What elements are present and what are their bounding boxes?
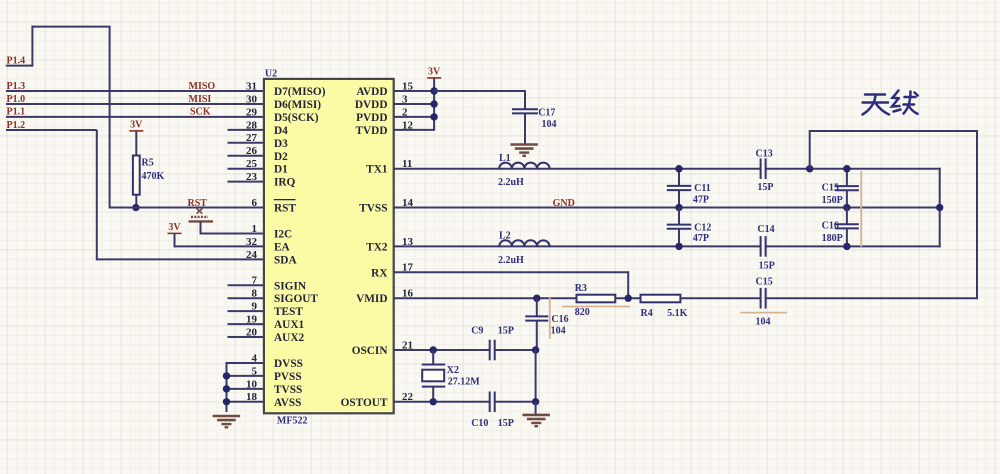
junction VDD [430,87,437,94]
label antenna (tian xian) [863,91,918,115]
junction TX1/C11 [675,165,682,172]
svg-text:MF522: MF522 [277,416,308,427]
svg-text:3V: 3V [130,120,143,131]
wire VMID [394,297,578,299]
svg-text:20: 20 [246,326,258,338]
junction X2 top [430,346,437,353]
wire MISI net [6,103,264,105]
svg-text:C16: C16 [822,221,839,232]
wire antenna right side [976,130,978,299]
capacitor C12 [667,224,692,226]
svg-text:TVSS: TVSS [359,203,387,215]
svg-text:C9: C9 [471,326,483,337]
svg-text:R4: R4 [641,308,653,319]
svg-text:TX2: TX2 [366,241,388,253]
svg-text:GND: GND [553,198,575,209]
wire P1.4 riser [31,26,33,67]
svg-text:150P: 150P [822,195,843,206]
ground C17 [511,143,538,146]
svg-text:DVSS: DVSS [274,358,303,370]
junction antenna tap [806,165,813,172]
pin stub row 6 [228,155,264,157]
junction RX/VMID [625,295,632,302]
wire 3V to EA [174,234,176,248]
pin stub row 20 [228,336,264,338]
svg-text:TX1: TX1 [366,164,388,176]
wire antenna inner vertical [939,168,941,248]
junction VDD [430,113,437,120]
junction C16b/VMID [533,295,540,302]
junction TX2/C16 [843,243,850,250]
svg-text:470K: 470K [142,171,165,182]
svg-text:D6(MISI): D6(MISI) [274,99,321,111]
svg-text:30: 30 [246,93,258,105]
wire antenna top run [810,130,977,132]
wire RX [394,271,629,273]
wire 3V to R5 [135,131,137,156]
IC body U2 [264,79,394,413]
svg-text:15P: 15P [498,418,514,429]
inductor L1 [499,163,549,169]
svg-text:4: 4 [252,352,258,364]
ground oscillator [523,414,550,417]
svg-text:U2: U2 [265,69,277,80]
svg-text:L1: L1 [499,153,511,164]
svg-text:104: 104 [551,326,566,337]
capacitor C17 [512,108,538,110]
wire VDD stub row 3 [394,116,434,118]
marker line tan C16b [549,298,551,339]
svg-text:AVSS: AVSS [274,397,301,409]
wire VDD stub row 1 [394,90,434,92]
wire RST horizontal [110,207,264,209]
wire C16 stem bottom [846,228,848,246]
svg-text:3V: 3V [168,222,181,233]
junction C9/bus [532,346,539,353]
svg-text:18: 18 [246,391,258,403]
svg-text:D1: D1 [274,164,288,176]
RST overline [274,199,296,201]
wire SDA horizontal [97,258,264,260]
capacitor C16 104 [525,315,548,317]
pin stub row 7 [228,168,264,170]
wire DVSS stub [227,362,264,364]
wire TX1 [394,168,761,170]
svg-text:19: 19 [246,314,258,326]
ground mark x [197,208,203,213]
wire AVDD to C17 [433,90,525,92]
svg-text:TVSS: TVSS [274,384,302,396]
svg-text:SDA: SDA [274,254,297,266]
svg-text:D5(SCK): D5(SCK) [274,112,319,124]
svg-text:SIGIN: SIGIN [274,280,307,292]
pin stub row 16 [228,284,264,286]
svg-text:3V: 3V [428,67,441,78]
svg-text:MISO: MISO [189,81,216,92]
resistor R5 [133,156,140,195]
wire C11 stem bottom [678,190,680,208]
pin stub row 5 [228,142,264,144]
svg-text:D3: D3 [274,138,288,150]
capacitor C16 180P [835,223,859,225]
svg-text:OSCIN: OSCIN [352,345,389,357]
svg-text:104: 104 [542,119,557,130]
svg-text:RST: RST [188,198,208,209]
svg-text:IRQ: IRQ [274,177,296,189]
svg-text:X2: X2 [447,365,459,376]
wire RX drop [627,271,629,298]
svg-text:D7(MISO): D7(MISO) [274,86,326,98]
svg-text:5: 5 [252,365,258,377]
wire C17 to ground [524,113,526,144]
junction TX1/C15 [843,165,850,172]
svg-text:RX: RX [371,267,388,279]
svg-text:C14: C14 [757,224,774,235]
pin stub row 4 [228,129,264,131]
marker line tan R3 [562,306,630,308]
svg-text:26: 26 [246,145,258,157]
capacitor C9 [489,340,491,361]
svg-text:6: 6 [252,197,258,209]
junction VSS [223,372,230,379]
svg-text:9: 9 [252,301,258,313]
svg-text:RST: RST [274,203,296,215]
wire VSS stub row 25 [227,401,264,403]
capacitor C15 150P [835,185,859,187]
svg-text:D4: D4 [274,125,288,137]
crystal X2 [432,350,434,365]
capacitor C11 [667,185,692,187]
svg-text:C15: C15 [822,183,839,194]
pin stub row 8 [228,181,264,183]
junction VSS [223,385,230,392]
wire SCK net [6,116,264,118]
wire C16 stem top [846,208,848,225]
junction VSS [223,398,230,405]
svg-text:C11: C11 [694,183,711,194]
pin stub row 17 [228,297,264,299]
wire TX2 [394,245,761,247]
wire R3 to R4 [615,297,641,299]
svg-text:I2C: I2C [274,228,292,240]
svg-text:C13: C13 [756,148,773,159]
wire VDD stub row 4 [394,129,434,131]
svg-text:32: 32 [246,236,258,248]
wire C9 to bus [494,349,536,351]
svg-text:C17: C17 [538,107,555,118]
wire R4 to C15 [680,297,760,299]
svg-text:7: 7 [252,275,258,287]
svg-text:820: 820 [575,307,590,318]
svg-text:27.12M: 27.12M [448,377,481,388]
pin stub row 19 [228,323,264,325]
wire C11 stem top [678,169,680,187]
svg-text:R3: R3 [575,283,587,294]
wire VSS stub row 23 [227,375,264,377]
inductor L2 [499,240,549,246]
wire antenna riser [809,130,811,169]
wire bus to ground [535,402,537,414]
svg-text:15P: 15P [759,260,775,271]
svg-text:29: 29 [246,106,258,118]
wire C12 stem bottom [678,228,680,246]
svg-text:AUX2: AUX2 [274,332,304,344]
wire VSS bus vertical [226,362,228,412]
wire TX1 after C13 [766,168,941,170]
wire ground to I2C pin [200,221,202,234]
svg-text:VMID: VMID [356,293,387,305]
wire C15 stem top [846,169,848,187]
wire P1.2 drop to SDA [96,130,98,261]
svg-text:C15: C15 [756,276,773,287]
svg-text:AUX1: AUX1 [274,319,304,331]
svg-text:C16: C16 [551,314,568,325]
wire C15 stem bottom [846,190,848,208]
svg-text:2.2uH: 2.2uH [498,255,524,266]
ground solid bar [189,220,213,222]
junction TVSS/C11 [675,204,682,211]
wire MISO net [6,90,264,92]
svg-text:47P: 47P [693,195,709,206]
resistor R3 [577,295,616,303]
svg-text:L2: L2 [499,231,511,242]
svg-text:180P: 180P [822,233,843,244]
wire P1.2 horizontal [6,129,97,131]
svg-text:MISI: MISI [189,94,212,105]
wire OSCIN [394,349,490,351]
svg-text:SCK: SCK [190,107,211,118]
svg-text:25: 25 [246,158,258,170]
svg-text:10: 10 [246,378,258,390]
wire P1.4 horizontal [6,65,33,67]
svg-text:27: 27 [246,132,258,144]
wire osc ground bus [535,350,537,402]
svg-text:TEST: TEST [274,306,303,318]
wire OSTOUT [394,401,490,403]
junction VDD [430,100,437,107]
junction TVSS/C15 [843,204,850,211]
junction R5/RST [132,204,139,211]
svg-text:PVDD: PVDD [356,112,387,124]
svg-text:23: 23 [246,171,258,183]
svg-text:8: 8 [252,288,258,300]
svg-text:28: 28 [246,119,258,131]
svg-text:AVDD: AVDD [356,86,387,98]
marker line tan vertical [860,171,862,247]
capacitor C13 [760,158,762,179]
resistor R4 [641,295,681,303]
marker line tan C15 [740,312,787,314]
capacitor C15 104 [760,288,762,309]
wire VMID to antenna [766,297,978,299]
ground hatched bar [191,216,208,218]
wire VDD stub row 2 [394,103,434,105]
svg-text:15P: 15P [498,326,514,337]
svg-text:31: 31 [246,80,257,92]
pin stub row 18 [228,310,264,312]
svg-text:15P: 15P [757,182,773,193]
capacitor C14 [760,236,762,257]
svg-text:R5: R5 [142,158,154,169]
wire VSS stub row 24 [227,388,264,390]
svg-text:C10: C10 [471,418,488,429]
svg-text:47P: 47P [693,233,709,244]
wire C16b stem bottom [536,321,538,350]
junction TX2/C12 [675,243,682,250]
svg-text:24: 24 [246,249,258,261]
svg-text:EA: EA [274,241,291,253]
wire C16b stem top [536,298,538,316]
svg-text:1: 1 [252,223,258,235]
svg-text:DVDD: DVDD [355,99,388,111]
junction C10/bus [532,398,539,405]
svg-text:104: 104 [756,317,771,328]
wire C10 to bus [494,401,536,403]
ground AVSS [213,415,240,418]
svg-text:PVSS: PVSS [274,371,302,383]
svg-text:C12: C12 [694,223,711,234]
wire TVSS [394,207,941,209]
svg-text:OSTOUT: OSTOUT [341,397,388,409]
junction TVSS/antenna [936,204,943,211]
svg-text:2.2uH: 2.2uH [498,177,524,188]
svg-text:TVDD: TVDD [355,125,387,137]
wire P1.4 drop to RST [109,27,111,209]
wire C12 stem top [678,208,680,226]
wire R5 to RST net [135,195,137,209]
wire top run [32,26,110,28]
wire TX2 after C14 [766,245,941,247]
wire 3V vertical [433,78,435,130]
svg-text:D2: D2 [274,151,288,163]
svg-text:5.1K: 5.1K [667,308,688,319]
capacitor C10 [489,392,491,413]
junction X2 bottom [430,398,437,405]
svg-text:SIGOUT: SIGOUT [274,293,318,305]
